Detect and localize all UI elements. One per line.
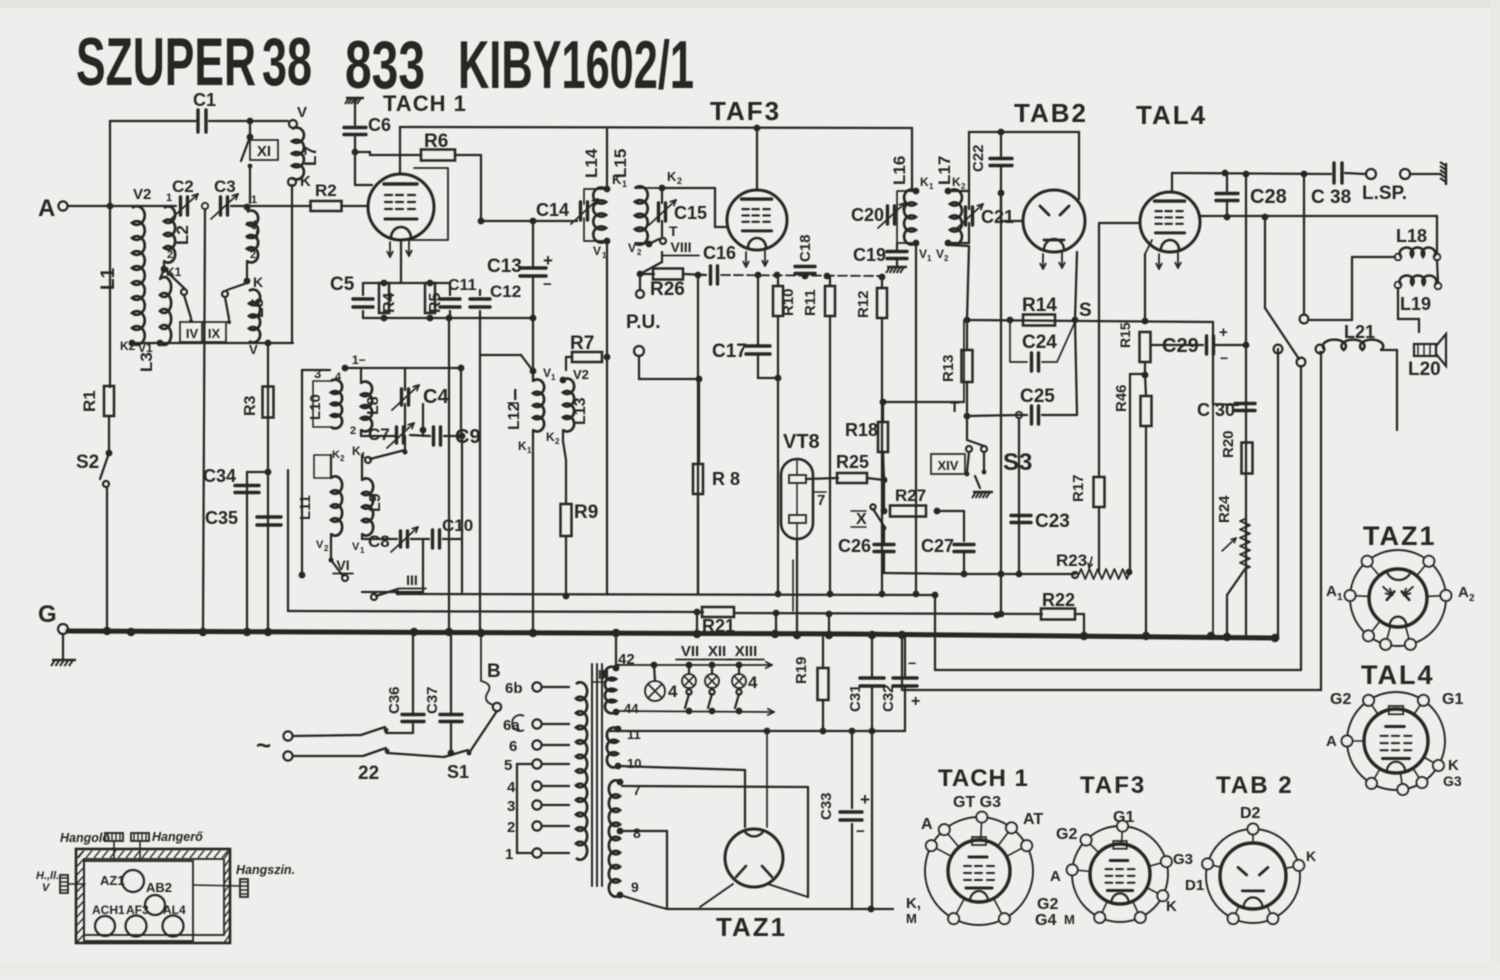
capacitor C31 xyxy=(860,676,884,679)
switch S2 xyxy=(100,453,109,479)
svg-text:TAZ1: TAZ1 xyxy=(1363,521,1437,551)
svg-text:+: + xyxy=(911,693,920,710)
svg-text:III: III xyxy=(406,572,418,588)
svg-text:C26: C26 xyxy=(838,536,871,556)
svg-text:G3: G3 xyxy=(1443,773,1462,789)
switch contact circle x1304 xyxy=(1300,315,1309,324)
svg-text:G2: G2 xyxy=(1056,826,1077,843)
svg-text:C19: C19 xyxy=(853,245,886,265)
resistor R17 xyxy=(1094,477,1105,507)
switch 22 lower xyxy=(363,748,386,756)
top rail from TACH1 to L16 xyxy=(400,127,912,128)
svg-text:Hangerő: Hangerő xyxy=(152,830,203,844)
svg-text:C17: C17 xyxy=(712,341,747,362)
branch wire to C34 xyxy=(247,471,268,473)
svg-text:6b: 6b xyxy=(505,680,523,697)
capacitor C12 xyxy=(470,297,490,300)
wire R8 up xyxy=(698,379,700,464)
vertical wire from C2-C3 node down to bus xyxy=(203,209,205,631)
wire L19 left down to L20 xyxy=(1397,288,1399,319)
svg-text:AZ1: AZ1 xyxy=(100,873,125,888)
switch XIV pair xyxy=(966,416,968,440)
svg-text:L14: L14 xyxy=(582,148,601,178)
wire C26 C27 bottom rail right xyxy=(964,573,1075,575)
variable capacitor C20 xyxy=(886,206,889,224)
dial lamp 3 xyxy=(705,674,719,688)
coil L1 xyxy=(132,206,145,345)
oscillator box top edge xyxy=(302,369,330,371)
svg-text:XIV: XIV xyxy=(938,458,959,473)
TAB2 top rail xyxy=(969,131,1079,133)
socket hole AL4 xyxy=(163,916,184,937)
svg-text:VIII: VIII xyxy=(670,239,691,255)
coil L13 xyxy=(563,379,574,432)
svg-text:K: K xyxy=(1448,757,1459,774)
primary terminal 1 xyxy=(532,848,541,857)
svg-text:1: 1 xyxy=(527,446,532,455)
svg-text:R10: R10 xyxy=(780,288,797,316)
secondary winding 42-44 xyxy=(605,667,616,714)
svg-text:L16: L16 xyxy=(890,156,909,185)
capacitor C13 electrolytic xyxy=(520,266,546,269)
TAF3 plate wire up xyxy=(756,128,758,190)
secondary winding 7-8-9 xyxy=(609,780,620,896)
connector box hatching xyxy=(77,851,230,943)
svg-text:Hangszin.: Hangszin. xyxy=(236,863,295,877)
wire C1 to XI node xyxy=(209,120,250,122)
mains terminal upper xyxy=(283,731,292,740)
TAZ1 top notch xyxy=(744,830,764,836)
svg-text:R19: R19 xyxy=(793,656,810,684)
wire T to R26 node xyxy=(661,252,663,262)
coil L8 xyxy=(361,382,372,432)
svg-text:3: 3 xyxy=(507,798,515,815)
wire up from node to top rail xyxy=(109,121,111,206)
svg-text:2: 2 xyxy=(324,544,329,553)
svg-text:A: A xyxy=(1458,584,1469,601)
wire R6 right to vertical xyxy=(455,154,481,156)
svg-text:C 30: C 30 xyxy=(1197,400,1235,420)
wire to L7 top xyxy=(250,120,288,122)
svg-text:KIBY1602/1: KIBY1602/1 xyxy=(458,27,694,103)
svg-text:P.U.: P.U. xyxy=(626,312,661,333)
coil L21 xyxy=(1316,345,1325,354)
socket hole AZ1 xyxy=(122,870,144,892)
socket hole ACH1 xyxy=(95,916,115,936)
svg-text:T: T xyxy=(669,223,678,239)
wire L18 left corner xyxy=(1352,256,1395,258)
svg-text:L19: L19 xyxy=(1400,294,1431,314)
svg-text:R17: R17 xyxy=(1070,474,1087,502)
variable capacitor C8 xyxy=(399,531,402,547)
wire node down to R27 xyxy=(883,480,885,508)
svg-text:V: V xyxy=(936,247,944,261)
svg-text:38: 38 xyxy=(262,24,312,100)
coil L18 xyxy=(1395,254,1402,261)
primary terminal 6a xyxy=(532,719,541,728)
AVC wire C16 to grid resistors xyxy=(721,275,884,276)
svg-text:1: 1 xyxy=(927,254,932,263)
resistor R12 xyxy=(877,288,887,318)
svg-text:C12: C12 xyxy=(490,282,521,301)
svg-text:L10: L10 xyxy=(307,394,324,420)
wire x1213 down from S wire xyxy=(1212,322,1214,404)
bus junction dots xyxy=(103,627,111,635)
variable capacitor C15 xyxy=(657,203,660,221)
wire K2 to TAF3 grid xyxy=(662,187,715,189)
wire x697 y612 to bus xyxy=(696,612,698,634)
coil L12 xyxy=(533,380,544,432)
capacitor C22 xyxy=(990,157,1012,160)
switch X blade xyxy=(873,509,884,526)
svg-text:C10: C10 xyxy=(442,516,473,535)
variable capacitor C21 xyxy=(964,207,967,225)
wire R8 down xyxy=(697,494,699,594)
wire C6 down and node xyxy=(354,135,356,152)
mains wire lower xyxy=(293,755,363,757)
svg-text:K: K xyxy=(920,175,929,189)
switch lamp3 xyxy=(709,689,714,694)
capacitor C19 xyxy=(887,250,907,253)
svg-text:K: K xyxy=(253,274,263,290)
svg-text:G2: G2 xyxy=(1037,896,1058,913)
svg-text:L5: L5 xyxy=(248,298,267,318)
right column of osc caps down xyxy=(422,539,424,592)
ground symbol bottom left xyxy=(51,660,76,666)
svg-text:L21: L21 xyxy=(1344,322,1375,342)
capacitor C9 xyxy=(432,427,435,445)
wire y690 corner right xyxy=(902,689,1321,691)
coil L9 xyxy=(362,478,373,535)
switch lamp4 xyxy=(736,689,741,694)
svg-text:C34: C34 xyxy=(203,466,236,486)
svg-text:L13: L13 xyxy=(572,397,589,425)
heater bottom rail xyxy=(667,908,893,910)
resistor R19 xyxy=(818,668,829,700)
roman XIV box xyxy=(931,454,965,474)
svg-text:V: V xyxy=(593,244,601,258)
TAZ1 filament marks xyxy=(736,866,746,877)
coil L2 xyxy=(164,206,175,262)
svg-text:AL4: AL4 xyxy=(163,903,186,917)
svg-text:C7: C7 xyxy=(368,425,390,444)
wire to C14 xyxy=(533,220,577,222)
svg-text:K: K xyxy=(352,444,361,458)
wire R7 node down xyxy=(606,357,608,594)
svg-text:R27: R27 xyxy=(895,486,926,505)
node left of R26 xyxy=(637,271,644,278)
dial lamp 1 xyxy=(645,681,665,701)
resistor R15 xyxy=(1140,332,1151,362)
svg-text:L15: L15 xyxy=(611,149,630,178)
svg-text:C11: C11 xyxy=(448,277,477,294)
svg-text:10: 10 xyxy=(627,756,641,771)
scan edge bottom xyxy=(0,962,1500,975)
svg-text:7: 7 xyxy=(633,782,641,798)
svg-text:R11: R11 xyxy=(802,289,819,316)
switch VI xyxy=(331,560,343,576)
connector box inner panel xyxy=(84,861,193,941)
wire A to C2 xyxy=(68,205,176,207)
svg-text:VT8: VT8 xyxy=(783,431,820,453)
wire Hull to box xyxy=(68,883,85,885)
wire x829 y614 to bus xyxy=(828,614,830,636)
terminal LSP left xyxy=(1366,169,1376,179)
svg-text:2: 2 xyxy=(340,454,345,463)
speaker L20 xyxy=(1414,344,1436,356)
svg-text:1: 1 xyxy=(1337,592,1343,603)
svg-text:AT: AT xyxy=(1023,811,1043,828)
wire x935 to corner xyxy=(934,595,936,670)
wire C7 C9 row xyxy=(360,430,362,436)
svg-text:C23: C23 xyxy=(1035,511,1070,532)
svg-text:K: K xyxy=(667,169,677,184)
svg-text:AB2: AB2 xyxy=(146,880,172,895)
wire R18 top to S3 area xyxy=(883,401,964,403)
svg-text:G2: G2 xyxy=(1330,691,1351,708)
L17 K2 V2 nodes xyxy=(945,188,952,195)
svg-text:A: A xyxy=(1326,733,1337,750)
svg-text:B: B xyxy=(487,661,501,682)
svg-text:R 8: R 8 xyxy=(712,469,740,489)
plate wire TACH1 up xyxy=(399,127,401,174)
potentiometer R24 xyxy=(1240,519,1250,569)
svg-text:TAF3: TAF3 xyxy=(1080,772,1146,799)
svg-text:L11: L11 xyxy=(297,495,314,520)
wire y612 R21 to R22 xyxy=(734,613,1042,614)
svg-text:2: 2 xyxy=(961,182,966,191)
wires from screws into box xyxy=(113,841,115,861)
socket TAB2 xyxy=(1206,829,1300,923)
svg-text:L2: L2 xyxy=(173,225,192,245)
primary terminal 6b xyxy=(532,682,541,691)
TAL4 plate wire up xyxy=(1171,173,1173,192)
oscillator switch middle xyxy=(370,450,405,459)
svg-text:V: V xyxy=(316,539,324,551)
svg-text:C5: C5 xyxy=(330,274,355,295)
svg-text:4: 4 xyxy=(668,682,678,701)
svg-text:R23: R23 xyxy=(1056,551,1087,570)
svg-text:R15: R15 xyxy=(1117,322,1133,348)
svg-text:L8: L8 xyxy=(365,396,382,415)
svg-text:V: V xyxy=(919,247,927,261)
rectifier TAZ1 circle xyxy=(725,829,783,887)
svg-text:S1: S1 xyxy=(447,762,469,782)
oscillator box left edge xyxy=(301,370,303,573)
node between C2 C3 xyxy=(202,203,208,209)
wire x481 bus down to B xyxy=(480,633,482,681)
connector box inner border xyxy=(84,859,224,935)
svg-text:C32: C32 xyxy=(880,684,897,712)
transformer core xyxy=(591,664,593,886)
tube TAL4 xyxy=(1140,192,1200,252)
svg-text:V: V xyxy=(249,342,258,357)
resistor R46 xyxy=(1141,396,1152,426)
svg-text:IV: IV xyxy=(186,326,199,341)
L16 K1 V1 nodes xyxy=(913,188,920,195)
svg-text:A: A xyxy=(921,816,933,833)
svg-text:R12: R12 xyxy=(855,290,872,318)
svg-text:2: 2 xyxy=(944,254,949,263)
coil L10 xyxy=(331,380,342,429)
socket TACH1 xyxy=(925,817,1033,925)
wire tube cathode down xyxy=(400,240,402,260)
svg-text:1: 1 xyxy=(360,546,365,555)
svg-text:4: 4 xyxy=(748,673,758,692)
svg-text:C22: C22 xyxy=(970,144,987,172)
svg-text:−: − xyxy=(1220,350,1228,366)
svg-text:R5: R5 xyxy=(427,292,444,313)
wire x1277 from contact to bus end xyxy=(1277,349,1279,353)
resistor R21 xyxy=(702,607,734,617)
wire tap8 right xyxy=(620,830,667,832)
svg-text:S: S xyxy=(1079,300,1092,321)
svg-text:TAL4: TAL4 xyxy=(1136,100,1207,130)
long wire y612 xyxy=(288,611,703,612)
wire ground to C6 xyxy=(354,100,356,125)
svg-text:G3: G3 xyxy=(1173,851,1193,868)
wire C6node to R6 xyxy=(355,151,370,153)
svg-text:XIII: XIII xyxy=(735,643,758,660)
svg-text:2: 2 xyxy=(555,437,560,446)
svg-text:2: 2 xyxy=(677,176,682,186)
resistor R2 xyxy=(311,201,342,211)
svg-text:L7: L7 xyxy=(301,146,320,166)
wire C3 to R2 xyxy=(231,205,311,207)
switch V1 L12 xyxy=(532,371,534,381)
resistor R10 xyxy=(773,286,783,316)
screw terminal Hangszin xyxy=(240,879,248,897)
resistor R3 xyxy=(263,387,274,418)
wire network to bus xyxy=(448,318,450,632)
svg-text:R18: R18 xyxy=(845,420,878,440)
svg-text:~: ~ xyxy=(256,730,271,760)
resistor R20 xyxy=(1242,443,1253,474)
resistor R13 xyxy=(962,350,973,382)
wire C4 top rail right xyxy=(405,367,461,369)
wire L21 right down xyxy=(1381,349,1397,351)
screen loop rectangle right of tube xyxy=(401,168,448,240)
capacitor C33 electrolytic xyxy=(840,810,862,813)
svg-text:4: 4 xyxy=(335,371,342,383)
svg-text:GT G3: GT G3 xyxy=(953,794,1001,811)
node T xyxy=(964,413,971,420)
node C25 left xyxy=(1016,412,1022,418)
svg-text:C24: C24 xyxy=(1022,332,1057,353)
wire L12 bottom down to bus xyxy=(532,430,534,633)
wire C12 C13 bottom join xyxy=(530,315,537,322)
svg-text:K: K xyxy=(518,439,527,453)
svg-text:2: 2 xyxy=(350,425,356,437)
VT8 bottom wire xyxy=(796,539,798,636)
node x997 on y613 xyxy=(994,612,1001,619)
svg-text:2: 2 xyxy=(250,249,256,261)
wire x1304 up to rail xyxy=(1303,174,1305,314)
svg-text:L20: L20 xyxy=(1408,359,1441,380)
socket hole AB2 xyxy=(145,895,165,915)
top rail wire to C1 xyxy=(110,120,196,122)
svg-text:C31: C31 xyxy=(847,684,864,712)
primary terminal 3 xyxy=(532,800,541,809)
svg-text:C14: C14 xyxy=(536,200,569,220)
coil L4 xyxy=(247,211,258,263)
wire L19 right up xyxy=(1437,260,1438,283)
bottom wire of antenna coils xyxy=(132,342,293,344)
svg-text:C3: C3 xyxy=(214,177,236,196)
svg-text:S2: S2 xyxy=(76,452,99,473)
screw terminal Hangolo xyxy=(105,833,123,841)
ground tail below G xyxy=(62,634,64,659)
resistor R8 xyxy=(693,464,703,494)
secondary winding 11-10 xyxy=(607,728,618,768)
svg-text:V2: V2 xyxy=(573,367,589,382)
wire x1213 down to bus xyxy=(1212,404,1214,636)
switch 22 upper xyxy=(361,727,385,735)
variable capacitor C3 xyxy=(219,197,222,215)
svg-text:V: V xyxy=(352,541,360,553)
VT8 electrodes xyxy=(789,475,806,483)
svg-text:1: 1 xyxy=(251,194,257,206)
wire C38 to LSP xyxy=(1345,173,1365,174)
wire R9 to switch III wire xyxy=(565,536,567,596)
long wire y595 to right xyxy=(398,594,935,595)
svg-text:XII: XII xyxy=(708,643,726,660)
socket TAL4 xyxy=(1347,692,1445,790)
TAZ1 plate wires xyxy=(700,884,733,907)
wire L7 K down right side xyxy=(291,185,293,343)
IF transformer L14 frame xyxy=(584,189,607,204)
resistor R14 xyxy=(1023,315,1055,326)
svg-text:R20: R20 xyxy=(1220,430,1237,458)
wire L17 V2 down to S line xyxy=(950,245,969,246)
TAL4 cathode wire xyxy=(1145,240,1152,254)
svg-text:8: 8 xyxy=(633,825,641,841)
tube VT8 stadium xyxy=(781,459,813,539)
wire screen node to C14 node xyxy=(481,220,533,222)
svg-text:V: V xyxy=(543,366,551,380)
ground below C19 xyxy=(886,267,907,273)
terminal below R26 node xyxy=(639,278,641,289)
svg-text:K: K xyxy=(1306,848,1316,864)
svg-text:2: 2 xyxy=(167,249,173,261)
svg-text:−: − xyxy=(543,276,552,293)
wire C26 C27 bottom xyxy=(884,573,964,574)
svg-text:TAZ1: TAZ1 xyxy=(716,912,787,942)
svg-text:7: 7 xyxy=(817,492,825,509)
resistor R18 xyxy=(878,422,888,452)
svg-text:TAB 2: TAB 2 xyxy=(1216,772,1294,799)
svg-text:A: A xyxy=(1050,868,1061,885)
L15 V2 and switch T xyxy=(646,241,653,248)
roman box IV IX xyxy=(180,322,204,342)
wire S line y320 xyxy=(967,320,1213,322)
svg-text:1: 1 xyxy=(929,182,934,191)
roman XI box xyxy=(250,140,278,160)
resistor R6 xyxy=(421,150,455,161)
VT8 grid wire down xyxy=(792,560,794,611)
svg-text:C 38: C 38 xyxy=(1311,187,1351,208)
svg-text:M: M xyxy=(906,911,917,926)
mains wire upper xyxy=(293,735,361,736)
bottom wire of cathode network xyxy=(363,317,480,319)
L15 K2 node xyxy=(659,185,666,192)
svg-text:R9: R9 xyxy=(574,502,598,523)
capacitor C17 xyxy=(746,344,770,347)
variable capacitor C14 xyxy=(579,202,582,220)
wire L16 V1 down xyxy=(915,243,917,594)
svg-text:A: A xyxy=(38,195,55,222)
resistor R7 xyxy=(572,352,602,362)
